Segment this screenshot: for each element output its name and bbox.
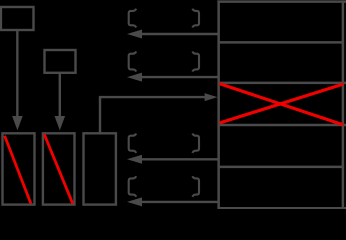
red slash through frame 2 [44, 134, 73, 204]
group 4: left bracket [129, 176, 137, 197]
box A (top-left small box) [1, 7, 34, 30]
wire: L connector from frame 3 up and right toward table [100, 97, 205, 132]
group 4: left arrowhead [127, 197, 142, 206]
table top edge [217, 0, 346, 3]
arrowhead pointing right into table [205, 93, 218, 101]
table row line 2 [219, 82, 346, 85]
group 2: arrow shaft from table pointing left [141, 76, 219, 78]
table row line 3 [219, 124, 346, 127]
group 4: arrow shaft from table pointing left [141, 201, 219, 203]
red cross stroke 2 in crossed table row [220, 84, 344, 123]
group 2: left bracket [129, 52, 137, 72]
frame 1 (bottom-left tall rectangle) [3, 133, 35, 204]
group 2: left arrowhead [127, 73, 142, 82]
table bottom edge [217, 207, 346, 210]
red slash through frame 1 [5, 136, 31, 204]
group 1: arrow shaft from table pointing left [141, 33, 219, 35]
group 4: right bracket [192, 176, 199, 197]
table right edge [342, 0, 345, 209]
group 1: left arrowhead [127, 30, 142, 39]
group 3: left arrowhead [127, 155, 142, 164]
table left edge [217, 0, 220, 209]
group 2: right bracket [192, 52, 199, 72]
arrowhead into frame 1 [12, 116, 23, 130]
wire: arrow shaft from box B down to frame 2 [59, 73, 61, 118]
group 1: left bracket [129, 9, 137, 28]
wire: arrow shaft from box A down to frame 1 [16, 30, 18, 118]
group 3: arrow shaft from table pointing left [141, 158, 219, 160]
box B (second small box) [45, 50, 76, 73]
arrowhead into frame 2 [55, 116, 66, 130]
table row line 1 [219, 41, 344, 44]
group 3: right bracket [192, 134, 199, 153]
red cross stroke 1 in crossed table row [219, 84, 343, 125]
group 1: right bracket [192, 9, 199, 28]
frame 3 (third tall rectangle) [84, 133, 116, 204]
table row line 4 [219, 166, 344, 169]
group 3: left bracket [129, 134, 137, 153]
frame 2 (second tall rectangle) [43, 133, 75, 204]
